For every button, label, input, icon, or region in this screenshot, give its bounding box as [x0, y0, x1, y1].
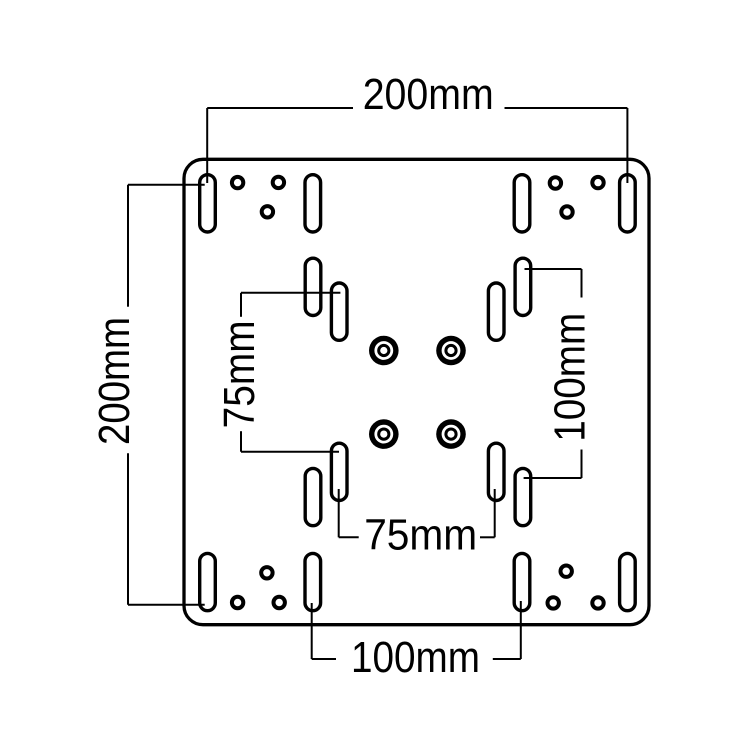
dimension 75mm bottom: dimension line left stub: [339, 536, 359, 538]
slot top-left corner: [200, 175, 216, 232]
hole bottom-right group b: [592, 597, 603, 608]
hole bottom-right group a: [548, 597, 559, 608]
center bolt hole bottom-right: [436, 419, 466, 449]
slot mid lower-right inner (75mm pattern): [488, 443, 504, 500]
svg-text:100mm: 100mm: [546, 313, 595, 442]
slot top row second: [305, 175, 321, 232]
slot top row third: [514, 175, 530, 232]
dimension 75mm mid-left: extension line bottom into slot: [241, 451, 339, 453]
dimension 200mm left: extension line bottom: [128, 604, 205, 606]
slot bottom-right corner: [620, 553, 636, 610]
hole top-right group b: [592, 177, 603, 188]
dimension 100mm bottom: extension line right from slot: [520, 601, 522, 659]
dimension 100mm bottom: dimension line left stub: [312, 658, 336, 660]
dimension 200mm top: dimension line right segment: [505, 107, 628, 109]
mounting plate outline: [184, 159, 649, 624]
dimension 75mm bottom: dimension line right stub: [480, 536, 495, 538]
dimension 200mm top: extension line left: [206, 108, 208, 183]
hole bottom-left group b: [274, 597, 285, 608]
dimension 100mm bottom: extension line left from slot: [311, 603, 313, 659]
hole top-right group c: [561, 206, 572, 217]
dimension 200mm left: dimension line upper segment: [127, 185, 129, 307]
slot mid upper-right inner (75mm pattern): [488, 283, 504, 340]
center bolt hole bottom-left: [369, 419, 399, 449]
dimension 100mm mid-right: dimension line lower segment: [581, 450, 583, 479]
dimension 75mm mid-left: extension line top into slot: [241, 292, 340, 294]
slot mid lower-left outer (100mm pattern): [305, 468, 321, 525]
dimension 200mm left: extension line top: [128, 184, 205, 186]
hole top-left group a: [232, 177, 243, 188]
svg-text:75mm: 75mm: [364, 510, 477, 559]
svg-text:200mm: 200mm: [363, 70, 494, 119]
svg-text:200mm: 200mm: [90, 317, 139, 445]
dimension 200mm top: extension line right: [626, 108, 628, 183]
dimension 100mm mid-right: extension line top into slot: [525, 268, 582, 270]
slot bottom row third: [514, 553, 530, 610]
dimension 100mm mid-right: dimension line upper segment: [581, 269, 583, 298]
svg-text:100mm: 100mm: [351, 633, 480, 682]
dimension 200mm left: dimension line lower segment: [127, 453, 129, 604]
hole bottom-left group a: [232, 597, 243, 608]
dimension 75mm mid-left: dimension line lower segment: [240, 431, 242, 452]
hole top-right group a: [550, 177, 561, 188]
slot mid lower-right outer (100mm pattern): [515, 468, 531, 525]
dimension 75mm bottom: extension line left from slot: [338, 489, 340, 537]
center bolt hole top-right: [436, 336, 466, 366]
slot bottom-left corner: [200, 553, 216, 610]
svg-text:75mm: 75mm: [215, 320, 264, 428]
slot mid lower-left inner (75mm pattern): [331, 443, 347, 500]
slot top-right corner: [620, 175, 636, 232]
hole top-left group c: [262, 206, 273, 217]
hole top-left group b: [273, 177, 284, 188]
dimension 200mm top: dimension line left segment: [207, 107, 353, 109]
slot mid upper-right outer (100mm pattern): [515, 258, 531, 315]
dimension 75mm mid-left: dimension line upper segment: [240, 293, 242, 317]
dimension 75mm bottom: extension line right from slot: [494, 489, 496, 537]
hole bottom-left group c: [261, 567, 272, 578]
dimension 100mm mid-right: extension line bottom into slot: [524, 477, 582, 479]
hole bottom-right group c: [561, 566, 572, 577]
dimension 100mm bottom: dimension line right stub: [493, 658, 521, 660]
center bolt hole top-left: [369, 336, 399, 366]
slot bottom row second: [305, 553, 321, 610]
slot mid upper-left outer (100mm pattern): [305, 258, 321, 315]
slot mid upper-left inner (75mm pattern): [331, 283, 347, 340]
